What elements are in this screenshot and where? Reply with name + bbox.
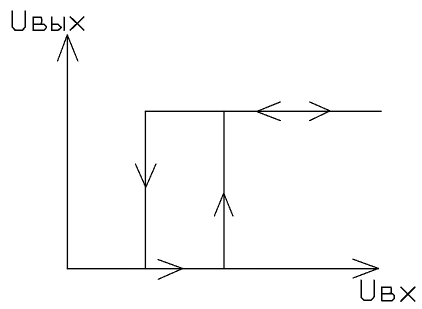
label Uвых (output voltage axis label) — [12, 11, 84, 30]
up arrow on right branch — [214, 193, 233, 216]
hysteresis right vertical branch — [223, 111, 225, 268]
x-axis Uвх — [67, 268, 378, 270]
x-axis arrowhead — [353, 259, 379, 278]
y-axis arrowhead — [58, 35, 78, 61]
down arrow on left branch — [136, 164, 156, 187]
hysteresis left vertical branch — [144, 111, 146, 268]
right arrow on x-axis — [158, 260, 183, 280]
label Uвх (input voltage axis label) — [361, 280, 415, 301]
y-axis Uвых — [66, 35, 68, 269]
left arrowhead on top branch — [257, 102, 281, 121]
right arrowhead on top branch — [310, 102, 330, 121]
top horizontal branch — [145, 110, 381, 112]
